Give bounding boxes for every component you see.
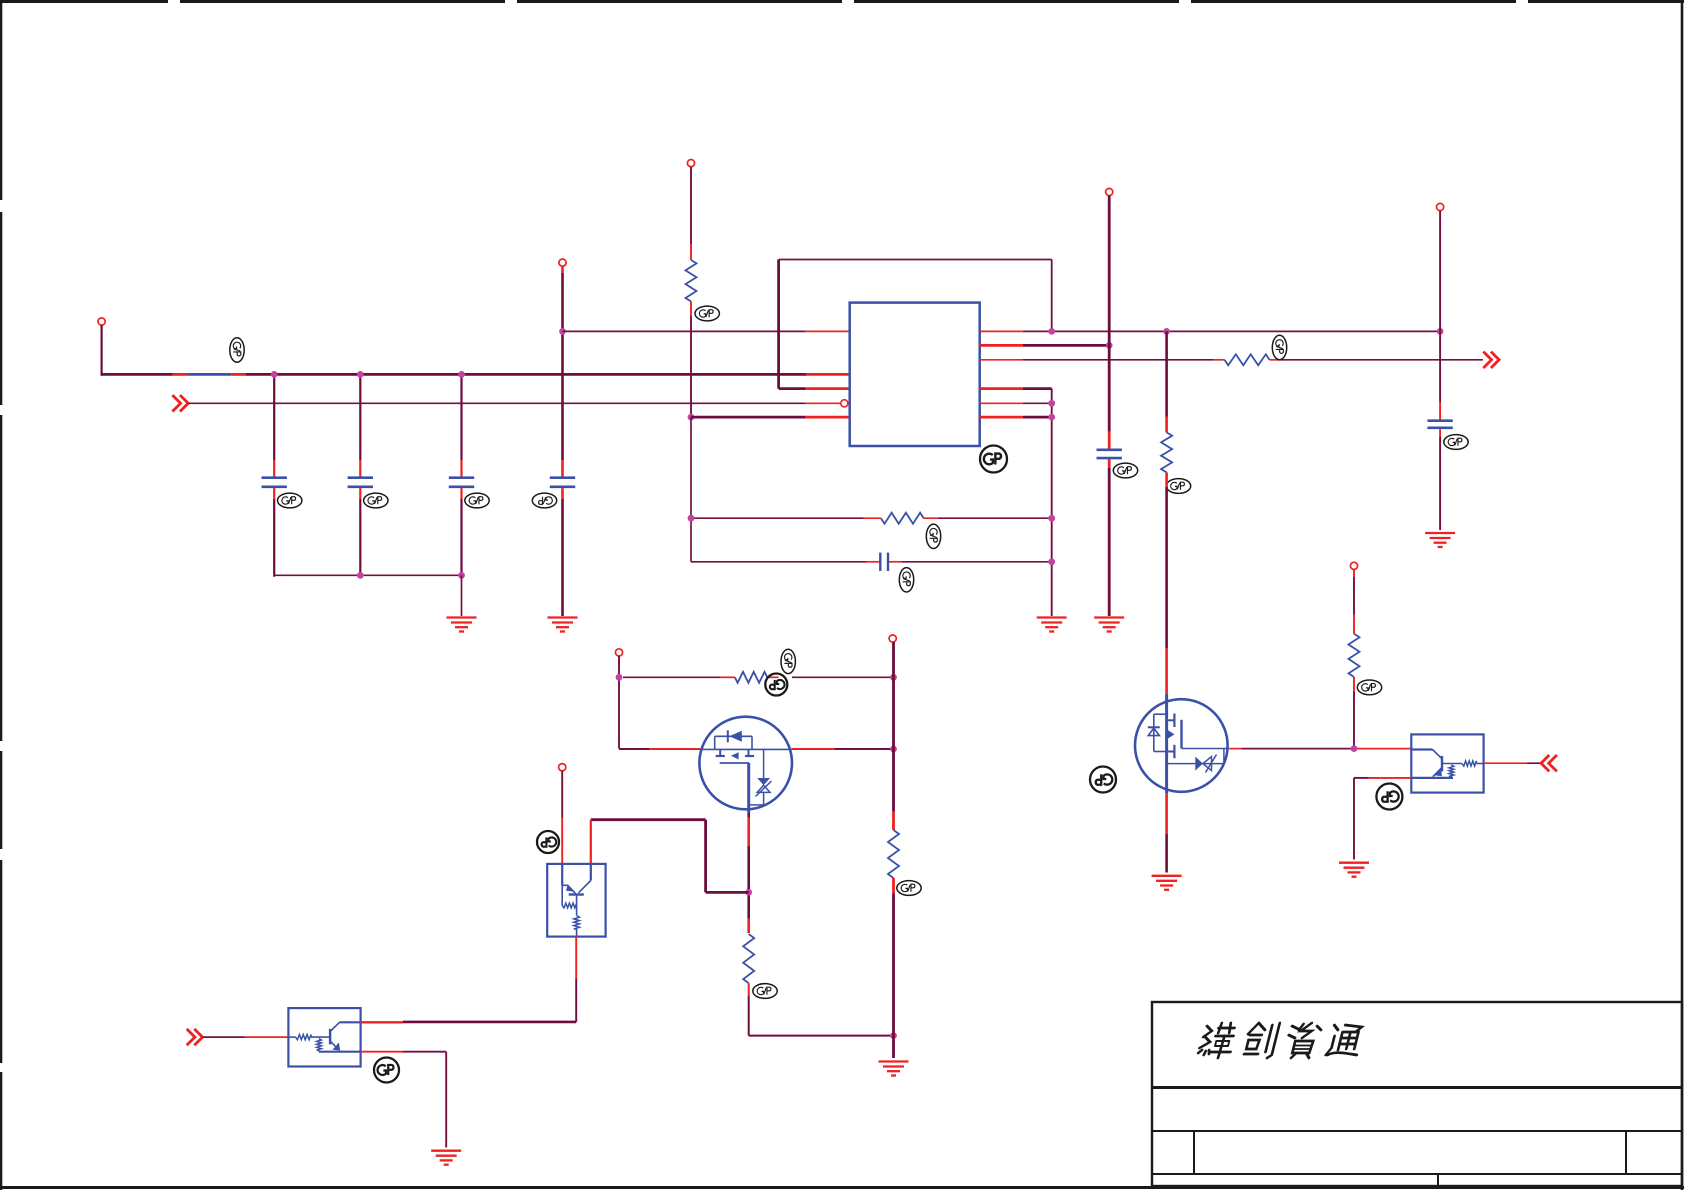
label R3 value G/P (1166, 479, 1190, 494)
label C3 value G/P (465, 493, 489, 508)
junction dot C4 net (559, 328, 566, 335)
capacitor C5 (1097, 450, 1122, 458)
label R5 value (rotated) (781, 649, 795, 673)
terminal P1 left (98, 318, 105, 325)
label C5 value G/P (1113, 463, 1137, 478)
wire lower loop y562 (691, 561, 1052, 563)
terminal P5 top right (1437, 203, 1444, 210)
ground under C6 (1425, 533, 1455, 547)
wire R3 to Q1 drain (1165, 472, 1168, 694)
wire R7 lower lead (892, 878, 895, 1058)
wire C5 lower lead (1108, 459, 1111, 616)
resistor R3 (1161, 432, 1172, 472)
wire cap bank bottom bus y575 (274, 574, 461, 576)
terminal P2 top (559, 259, 566, 266)
wire R6 lower lead + bottom jog (749, 983, 894, 1035)
border frame top edge (0, 0, 1684, 3)
label C1 value G/P (278, 493, 302, 508)
off-page connector OUT1 (chevron right) (1483, 352, 1499, 368)
wire Q2 gate row left (619, 748, 701, 750)
wire Q3 collector red stub (590, 820, 592, 864)
wire Q2 drain lead down (747, 813, 750, 933)
wire R1 lower lead down to pin5 net (690, 301, 692, 417)
ground under x1051 (1037, 618, 1067, 632)
off-page connector IN1 (chevron right) (172, 395, 188, 411)
junction dot y562 right (1048, 558, 1055, 565)
label R4 value (rotated) (926, 524, 940, 548)
wire capacitor C1 upper lead (273, 374, 275, 576)
wire C6 branch upper (1439, 211, 1441, 421)
wire IC pin4 net y403 (188, 402, 841, 404)
label Q3 refdes GP (rotated) (537, 831, 559, 853)
wire C4 branch vertical (561, 266, 564, 616)
terminal P6 (615, 649, 622, 656)
capacitor C1 (262, 478, 287, 487)
terminal P4 top x1109 (1106, 188, 1113, 195)
resistor R4 (881, 513, 924, 524)
label R7 value G/P (897, 881, 921, 896)
ground under Q1 (1152, 876, 1182, 890)
ground under C5 (1094, 618, 1124, 632)
wire R8 lower lead (1353, 677, 1355, 749)
transistor Q2 (P-MOSFET in circle) (699, 717, 792, 813)
wire R5 net y677 (623, 676, 894, 678)
Wistron logo text 緯創資通 (1197, 1023, 1364, 1058)
wire R7 branch x894 (892, 642, 895, 830)
capacitor C2 (348, 478, 373, 487)
title block bottom divider (1437, 1174, 1439, 1186)
wire Q5 emitter to ground (1354, 778, 1411, 860)
label C7 value (rotated) (899, 568, 913, 592)
junction dot y1035 (890, 1032, 897, 1039)
wire Q2 gate row right (792, 748, 894, 750)
IC U1 body (850, 303, 980, 446)
wire net VIN horizontal bus y374 (102, 373, 850, 376)
border frame bottom edge (0, 1186, 1684, 1189)
junction dots on y575 (357, 572, 465, 579)
wire Q1 source lead down (1165, 793, 1168, 872)
wire IC pin11 net y417 right (980, 416, 1052, 419)
label C2 value G/P (364, 493, 388, 508)
transistor Q5 (digital PNP in box) (1411, 734, 1483, 792)
ground under x894 (879, 1062, 909, 1076)
title block divider v2 (1625, 1131, 1627, 1174)
terminal P9 (1350, 562, 1357, 569)
resistor R6 (743, 934, 754, 983)
label C4 value (rotated) (532, 493, 556, 508)
resistor R7 (888, 830, 899, 878)
label R2 value (rotated) (1272, 335, 1286, 359)
resistor R8 (1349, 634, 1360, 677)
wire Q1 gate net (1229, 748, 1411, 750)
wire top loop vertical x778 (777, 260, 780, 389)
transistor Q1 (P-MOSFET in circle) (1135, 694, 1229, 793)
title block outer box (1152, 1002, 1682, 1186)
capacitor C4 (550, 478, 575, 487)
wire IC pin6 net y331 right (980, 330, 1440, 332)
ground under C3 (447, 618, 477, 632)
title block divider v1 (1193, 1131, 1195, 1174)
wire R1 upper lead (690, 167, 692, 260)
junction dot gate net (1351, 745, 1358, 752)
wire C3 ground lead (461, 575, 463, 616)
border frame right edge (1681, 0, 1684, 1190)
label net name (rotated) x237 (230, 338, 244, 362)
junction dot y677 right (890, 674, 897, 681)
wire IC pin9 net y388 right (980, 387, 1052, 390)
wire top loop horizontal y259 (779, 259, 1052, 261)
terminal P7 (889, 635, 896, 642)
wire lower loop y518 (691, 517, 1052, 519)
off-page connector IN2 (chevron right) (187, 1029, 203, 1045)
wire Q4 base in (203, 1036, 289, 1038)
terminal P8 (559, 764, 566, 771)
junction dots on bus y374 (271, 371, 465, 378)
junction dot y749 right (890, 746, 897, 753)
wire IC pin5 net y417 left (691, 416, 850, 419)
wire R3 upper lead (1165, 331, 1168, 432)
resistor R1 (686, 260, 697, 301)
wire Q3 collector jog (591, 820, 749, 893)
junction dot pin5 net (688, 414, 695, 421)
transistor Q4 (digital NPN in box) (288, 1008, 360, 1066)
title block line under logo (1152, 1086, 1682, 1089)
wire Q2 gate-pullup left vertical (618, 656, 620, 749)
wire Q3 emitter feed (561, 771, 563, 864)
ground under Q5 emitter (1339, 863, 1369, 877)
capacitor C7 (series) (880, 553, 888, 571)
title block middle line (1152, 1130, 1682, 1132)
junction dots y331 net (1048, 328, 1443, 335)
label Q2 refdes GP (rotated) (765, 674, 787, 696)
terminal P3 top (687, 160, 694, 167)
wire IC pin3 net y388 left (779, 387, 850, 390)
label U1 refdes GP (980, 446, 1007, 473)
wire capacitor C2 upper lead (359, 374, 361, 576)
title block lower line (1152, 1173, 1682, 1175)
label Q4 refdes GP (374, 1058, 399, 1083)
junction dots x1051 (1048, 400, 1055, 421)
resistor R2 (1225, 354, 1270, 365)
label Q5 refdes GP (rotated) (1376, 784, 1402, 810)
wire C5 branch upper (1108, 196, 1111, 450)
label R8 value G/P (1357, 680, 1381, 695)
off-page connector OUT2 (chevron left) (1541, 755, 1557, 771)
capacitor C3 (449, 478, 474, 487)
wire C6 lower lead (1439, 429, 1441, 530)
junction dot y345 at x1109 (1106, 342, 1113, 349)
transistor Q3 (digital PNP in box) (547, 864, 605, 937)
wire Q4 collector out (361, 1021, 577, 1024)
wire terminal P1 drop (100, 325, 102, 376)
label R1 value G/P (695, 306, 719, 321)
wire capacitor C3 upper lead (460, 374, 462, 576)
border frame left edge (0, 3, 2, 1190)
wire x691 vertical to lower loop (690, 417, 692, 562)
label Q1 refdes GP (rotated) (1090, 767, 1116, 793)
wire Q4 emitter out (361, 1052, 447, 1148)
wire x1051 right drop (1051, 389, 1053, 616)
wire top loop right drop x1051 (1051, 260, 1053, 332)
IC U1 pin4 inversion bubble (841, 400, 848, 407)
wire Q5 output net (1484, 762, 1542, 764)
wire IC pin8 net y360 right (980, 359, 1483, 361)
resistor R5 (735, 672, 767, 683)
wire R8 upper lead (1353, 569, 1355, 633)
ground under Q4 emitter (431, 1151, 461, 1165)
wire IC pin10 net y403 right (980, 402, 1052, 404)
capacitor C6 (1427, 421, 1452, 428)
junction dots y518 (688, 515, 1056, 522)
wire IC pin1 net y331 left (563, 330, 850, 332)
wire Q3 base out (575, 937, 577, 1022)
junction dot y677 left (616, 674, 623, 681)
junction dot Q2 drain (745, 889, 752, 896)
label C6 value G/P (1444, 435, 1468, 450)
label R6 value G/P (753, 984, 777, 999)
ground under C4 (548, 618, 578, 632)
wire IC pin7 net y345 right (980, 344, 1109, 347)
